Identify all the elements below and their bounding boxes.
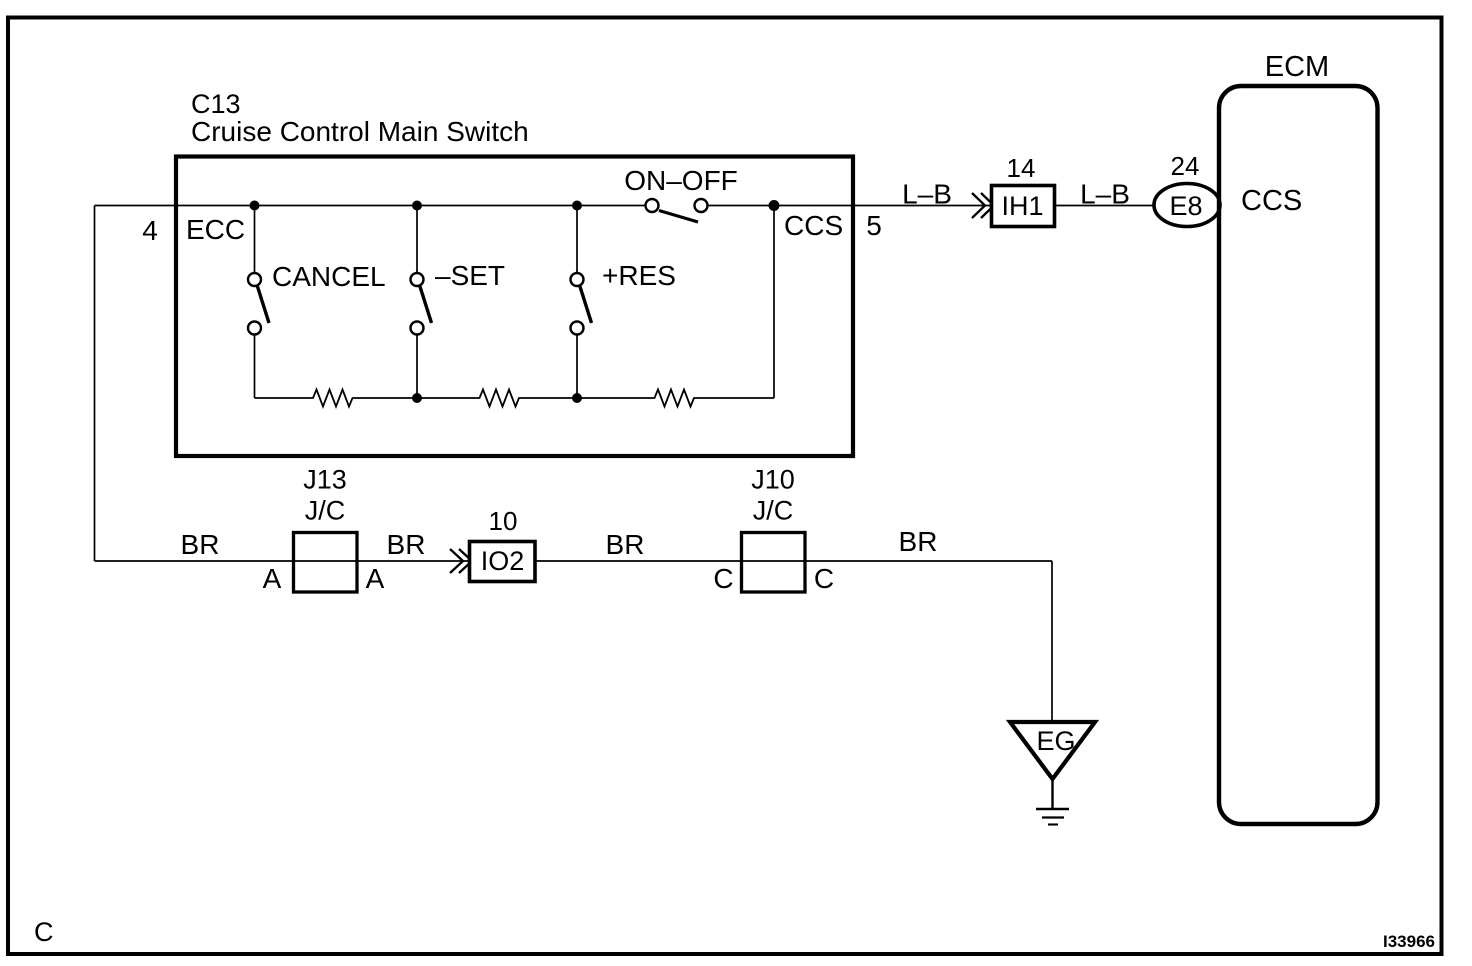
svg-text:E8: E8 (1169, 191, 1202, 221)
svg-text:24: 24 (1171, 151, 1200, 181)
svg-text:ECC: ECC (186, 214, 245, 245)
connector IH1 (992, 186, 1055, 227)
wire CCS column (773, 206, 775, 399)
svg-text:L–B: L–B (902, 179, 952, 210)
resistor row R1 R2 R3 (255, 390, 775, 407)
svg-text:4: 4 (142, 215, 158, 246)
svg-text:10: 10 (489, 506, 518, 536)
node SET bottom junction (412, 393, 422, 403)
wire CANCEL column (254, 206, 256, 399)
svg-text:J13: J13 (303, 465, 347, 495)
svg-text:J/C: J/C (305, 496, 346, 526)
svg-text:EG: EG (1036, 726, 1075, 756)
ground bars (1036, 808, 1069, 811)
svg-text:–SET: –SET (435, 260, 505, 291)
node RES bottom junction (572, 393, 582, 403)
ground stem (1051, 779, 1053, 808)
svg-text:J10: J10 (751, 465, 795, 495)
junction J13 (294, 533, 358, 593)
svg-text:ON–OFF: ON–OFF (624, 165, 738, 196)
wire bus ECC-to-ONOFF (95, 205, 646, 207)
switch ON-OFF contacts (646, 199, 659, 212)
svg-text:C13: C13 (191, 89, 241, 119)
svg-text:IO2: IO2 (481, 546, 525, 576)
svg-text:A: A (263, 563, 282, 594)
node SET top junction (412, 201, 422, 211)
svg-text:I33966: I33966 (1383, 932, 1435, 951)
arrow into IO2 (450, 549, 472, 573)
wire RES column (576, 206, 578, 399)
svg-text:A: A (366, 563, 385, 594)
switch RES contacts (571, 273, 584, 286)
svg-text:Cruise Control Main Switch: Cruise Control Main Switch (191, 116, 529, 147)
wire drop to EG (1051, 561, 1053, 722)
node ECC junction (250, 201, 260, 211)
connector IO2 (470, 542, 536, 582)
arrow into IH1 (972, 193, 994, 218)
svg-text:5: 5 (866, 210, 882, 241)
svg-text:IH1: IH1 (1001, 191, 1043, 221)
svg-text:+RES: +RES (602, 260, 676, 291)
ground EG triangle (1010, 722, 1095, 779)
switch SET contacts (411, 273, 424, 286)
svg-text:L–B: L–B (1080, 179, 1130, 210)
connector E8 (1154, 184, 1220, 227)
ECM box (1219, 86, 1378, 824)
wire ONOFF-to-IH1 (708, 205, 991, 207)
svg-text:ECM: ECM (1265, 51, 1329, 83)
svg-text:CCS: CCS (1241, 185, 1302, 217)
svg-text:CCS: CCS (784, 210, 843, 241)
switch CANCEL contacts (248, 273, 261, 286)
node CCS junction (769, 200, 780, 211)
switch S1 Cruise Control Main Switch box (176, 157, 853, 457)
wire left drop pin4 (94, 206, 96, 562)
wire SET column (416, 206, 418, 399)
wire IH1-to-E8 (1056, 205, 1165, 207)
connector C13 label (191, 89, 529, 147)
svg-text:BR: BR (181, 529, 220, 560)
svg-text:J/C: J/C (753, 496, 794, 526)
junction J10 (742, 533, 806, 593)
svg-text:C: C (713, 563, 733, 594)
svg-text:CANCEL: CANCEL (272, 261, 386, 292)
node RES top junction (572, 201, 582, 211)
svg-text:C: C (814, 563, 834, 594)
wire lower BR run (95, 560, 1053, 562)
svg-text:14: 14 (1007, 153, 1036, 183)
svg-text:BR: BR (387, 529, 426, 560)
svg-text:BR: BR (899, 526, 938, 557)
svg-text:C: C (34, 917, 54, 947)
svg-text:BR: BR (606, 529, 645, 560)
